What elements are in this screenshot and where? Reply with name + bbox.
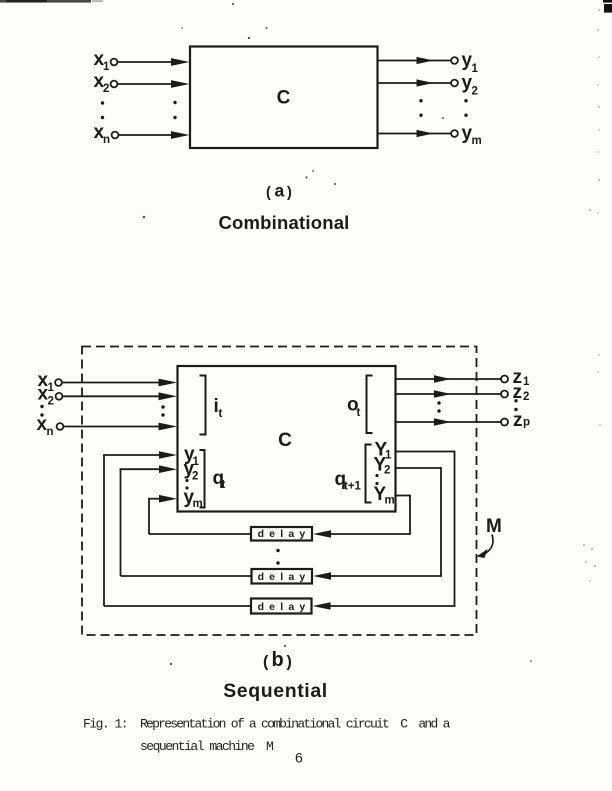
node z1 terminal circle <box>501 376 508 383</box>
figure caption text <box>83 717 451 755</box>
ellipsis dots z labels <box>514 399 517 411</box>
arrowhead x2 <box>171 80 190 88</box>
wire ym feedback into C <box>148 499 164 534</box>
label q_t <box>213 468 226 491</box>
node z2 terminal circle <box>501 391 508 398</box>
svg-text:(: ( <box>266 185 271 201</box>
svg-text:2: 2 <box>384 465 390 477</box>
node ym label <box>462 123 482 147</box>
wire Y2 to delay2 <box>330 467 442 576</box>
node x1 label (b) <box>38 370 55 394</box>
node x2 label (b) <box>38 384 54 408</box>
wire delay1 output to ym <box>149 533 251 535</box>
node x1 terminal circle (b) <box>55 379 62 386</box>
node xn label <box>94 122 111 146</box>
wire zp <box>396 421 502 423</box>
label q_t+1 <box>335 469 362 493</box>
node z2 label <box>513 382 530 403</box>
svg-text:t: t <box>222 479 226 491</box>
svg-text:1: 1 <box>48 382 55 394</box>
ellipsis dots output labels (a) <box>464 99 467 117</box>
arrowhead zp <box>434 418 451 426</box>
svg-text:delay: delay <box>258 528 311 540</box>
svg-text:1: 1 <box>472 63 479 75</box>
node xn terminal circle <box>112 132 119 139</box>
label o_t <box>347 395 361 420</box>
arrowhead x2 (b) <box>159 392 178 400</box>
svg-text:(: ( <box>263 654 269 671</box>
svg-text:m: m <box>472 135 482 147</box>
wire y1 output <box>378 60 452 62</box>
svg-text:C: C <box>277 88 291 109</box>
arrowhead y1 feedback <box>159 451 177 459</box>
arrowhead y2 feedback <box>159 465 177 473</box>
svg-text:2: 2 <box>48 396 54 408</box>
arrowhead z2 <box>434 390 451 398</box>
arrowhead ym <box>417 130 434 137</box>
bracket q_t+1 group <box>366 445 372 503</box>
arrowhead into delay1 <box>313 530 331 538</box>
ellipsis dots x labels (b) <box>40 405 43 417</box>
arrowhead x1 <box>171 58 190 66</box>
label Ym (next state) <box>374 484 395 507</box>
wire ym output <box>378 133 452 135</box>
arrowhead y1 <box>417 57 434 64</box>
svg-text:z: z <box>513 410 523 431</box>
ellipsis dots input wires (a) <box>173 101 176 119</box>
svg-text:Combinational: Combinational <box>218 212 349 233</box>
ellipsis dots x wires (b) <box>161 405 164 416</box>
svg-text:n: n <box>47 426 54 438</box>
delay element 2 <box>252 569 313 584</box>
label y2 (state input) <box>184 459 199 483</box>
arrowhead xn (b) <box>159 423 178 431</box>
label i_t <box>214 396 223 420</box>
label Y2 (next state) <box>374 455 391 477</box>
svg-text:a: a <box>275 181 285 201</box>
label Y1 (next state) <box>375 440 393 462</box>
node ym terminal circle <box>451 130 458 137</box>
arrowhead into delay3 <box>313 602 331 610</box>
svg-text:p: p <box>523 417 530 429</box>
bracket i_t group <box>200 376 206 435</box>
machine M dashed boundary <box>82 347 477 636</box>
svg-text:2: 2 <box>103 83 109 95</box>
svg-text:C: C <box>278 430 292 451</box>
node y2 label <box>462 73 478 98</box>
scan artifact top-left bar <box>0 0 103 3</box>
wire delay2 output to y2 <box>121 575 252 577</box>
node x1 terminal circle <box>111 59 118 66</box>
svg-text:delay: delay <box>258 571 311 583</box>
node y2 terminal circle <box>451 80 458 87</box>
svg-text:Representation of a combinatio: Representation of a combinational circui… <box>140 717 451 732</box>
wire y1 feedback into C <box>103 455 164 606</box>
wire x2 (b) <box>63 395 163 397</box>
svg-text:2: 2 <box>472 86 478 98</box>
svg-text:): ) <box>287 654 292 671</box>
wire delay3 output to y1 <box>104 605 252 607</box>
svg-text:t: t <box>357 407 361 419</box>
svg-text:delay: delay <box>258 601 311 613</box>
bracket o_t group <box>367 376 373 434</box>
node xn terminal circle (b) <box>57 423 64 430</box>
wire Ym to delay1 <box>330 495 411 534</box>
caption (a) <box>266 181 292 202</box>
wire xn (b) <box>64 426 163 428</box>
svg-text:t: t <box>219 408 223 420</box>
node zp terminal circle <box>501 419 508 426</box>
arrowhead z1 <box>434 375 451 383</box>
bracket q_t group <box>200 450 205 508</box>
ellipsis dots input labels (a) <box>101 101 104 119</box>
svg-text:t+1: t+1 <box>344 481 362 493</box>
wire Y1 to delay3 <box>330 451 455 606</box>
arrowhead y2 <box>417 79 434 86</box>
node y1 label <box>462 50 479 75</box>
wire z1 <box>396 378 502 380</box>
wire z2 <box>396 393 502 395</box>
node xn label (b) <box>37 414 54 438</box>
wire x1 (b) <box>62 382 163 384</box>
scan artifact top-right black squares <box>603 0 612 13</box>
svg-text:m: m <box>385 495 395 507</box>
svg-text:2: 2 <box>523 391 529 403</box>
wire y2 feedback into C <box>120 469 164 576</box>
scan specks <box>143 3 532 665</box>
ellipsis dots between delays <box>276 549 279 565</box>
svg-text:n: n <box>103 134 110 146</box>
delay element 3 <box>251 599 312 614</box>
label y1 (state input) <box>184 444 200 468</box>
wire x1 <box>118 61 176 63</box>
ellipsis dots z wires <box>437 401 440 412</box>
wire y2 output <box>378 82 452 84</box>
ellipsis dots output wires (a) <box>419 99 422 117</box>
arrowhead xn <box>171 131 190 139</box>
delay element 1 <box>251 527 312 541</box>
svg-text:): ) <box>287 185 292 201</box>
box C (sequential machine combinational part) <box>178 366 396 512</box>
arrowhead ym feedback <box>159 495 177 503</box>
wire xn <box>119 134 176 136</box>
box C (combinational circuit) <box>190 47 378 149</box>
svg-text:6: 6 <box>295 750 303 766</box>
ellipsis dots next state <box>375 474 378 485</box>
node x2 terminal circle (b) <box>56 393 63 400</box>
caption (b) <box>263 649 292 671</box>
label ym (state input) <box>184 487 203 510</box>
svg-text:Fig. 1:: Fig. 1: <box>83 717 127 732</box>
node x2 label <box>94 71 110 95</box>
arrowhead x1 (b) <box>159 379 178 387</box>
wire x2 <box>118 83 176 85</box>
svg-text:b: b <box>272 649 284 671</box>
arrowhead into delay2 <box>313 572 331 580</box>
node x1 label <box>94 49 111 73</box>
node z1 label <box>513 367 531 388</box>
faint right-margin scan specks <box>583 9 601 582</box>
svg-text:1: 1 <box>523 376 530 388</box>
node x2 terminal circle <box>111 81 118 88</box>
svg-text:M: M <box>486 516 502 537</box>
svg-text:Sequential: Sequential <box>223 680 328 702</box>
pointer arrow from M to boundary <box>477 535 494 559</box>
node y1 terminal circle <box>451 57 458 64</box>
svg-text:sequential machine M: sequential machine M <box>140 739 273 754</box>
node zp label <box>513 410 530 431</box>
svg-text:2: 2 <box>192 471 198 483</box>
ellipsis dots state inputs <box>185 479 188 490</box>
